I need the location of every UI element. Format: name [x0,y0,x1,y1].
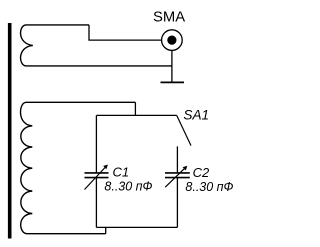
inductor L1 (coupling coil, 2 turns) [21,25,172,66]
capacitor C2 (variable) [165,166,190,187]
svg-text:SMA: SMA [153,10,185,26]
switch SA1 arm [177,115,191,145]
svg-text:C1: C1 [113,165,130,180]
ground [161,81,185,83]
connector SMA center pin [167,36,176,45]
wire C1 branch lower [95,178,97,228]
wire tank bottom rail [96,226,177,228]
svg-text:8..30 пФ: 8..30 пФ [104,180,152,194]
wire C2 branch lower [176,178,178,228]
wire C2 branch upper (switch fixed contact) [176,146,178,172]
svg-text:C2: C2 [193,165,210,180]
capacitor C1 (variable) [85,165,109,190]
wire L1 top to SMA pin [89,25,162,40]
svg-text:SA1: SA1 [183,107,209,122]
connector SMA body [162,30,183,51]
wire L2 bottom jog up to tank bottom rail [105,227,107,233]
wire L2 top jog down to tank top rail [134,102,136,115]
svg-text:8..30 пФ: 8..30 пФ [185,180,233,194]
wire tank top rail [96,114,176,116]
inductor L2 (main antenna coil, 6 turns) [21,102,136,233]
ferrite core rod [8,23,12,239]
wire C1 branch upper [95,115,97,172]
wire SMA shield down [171,50,173,82]
